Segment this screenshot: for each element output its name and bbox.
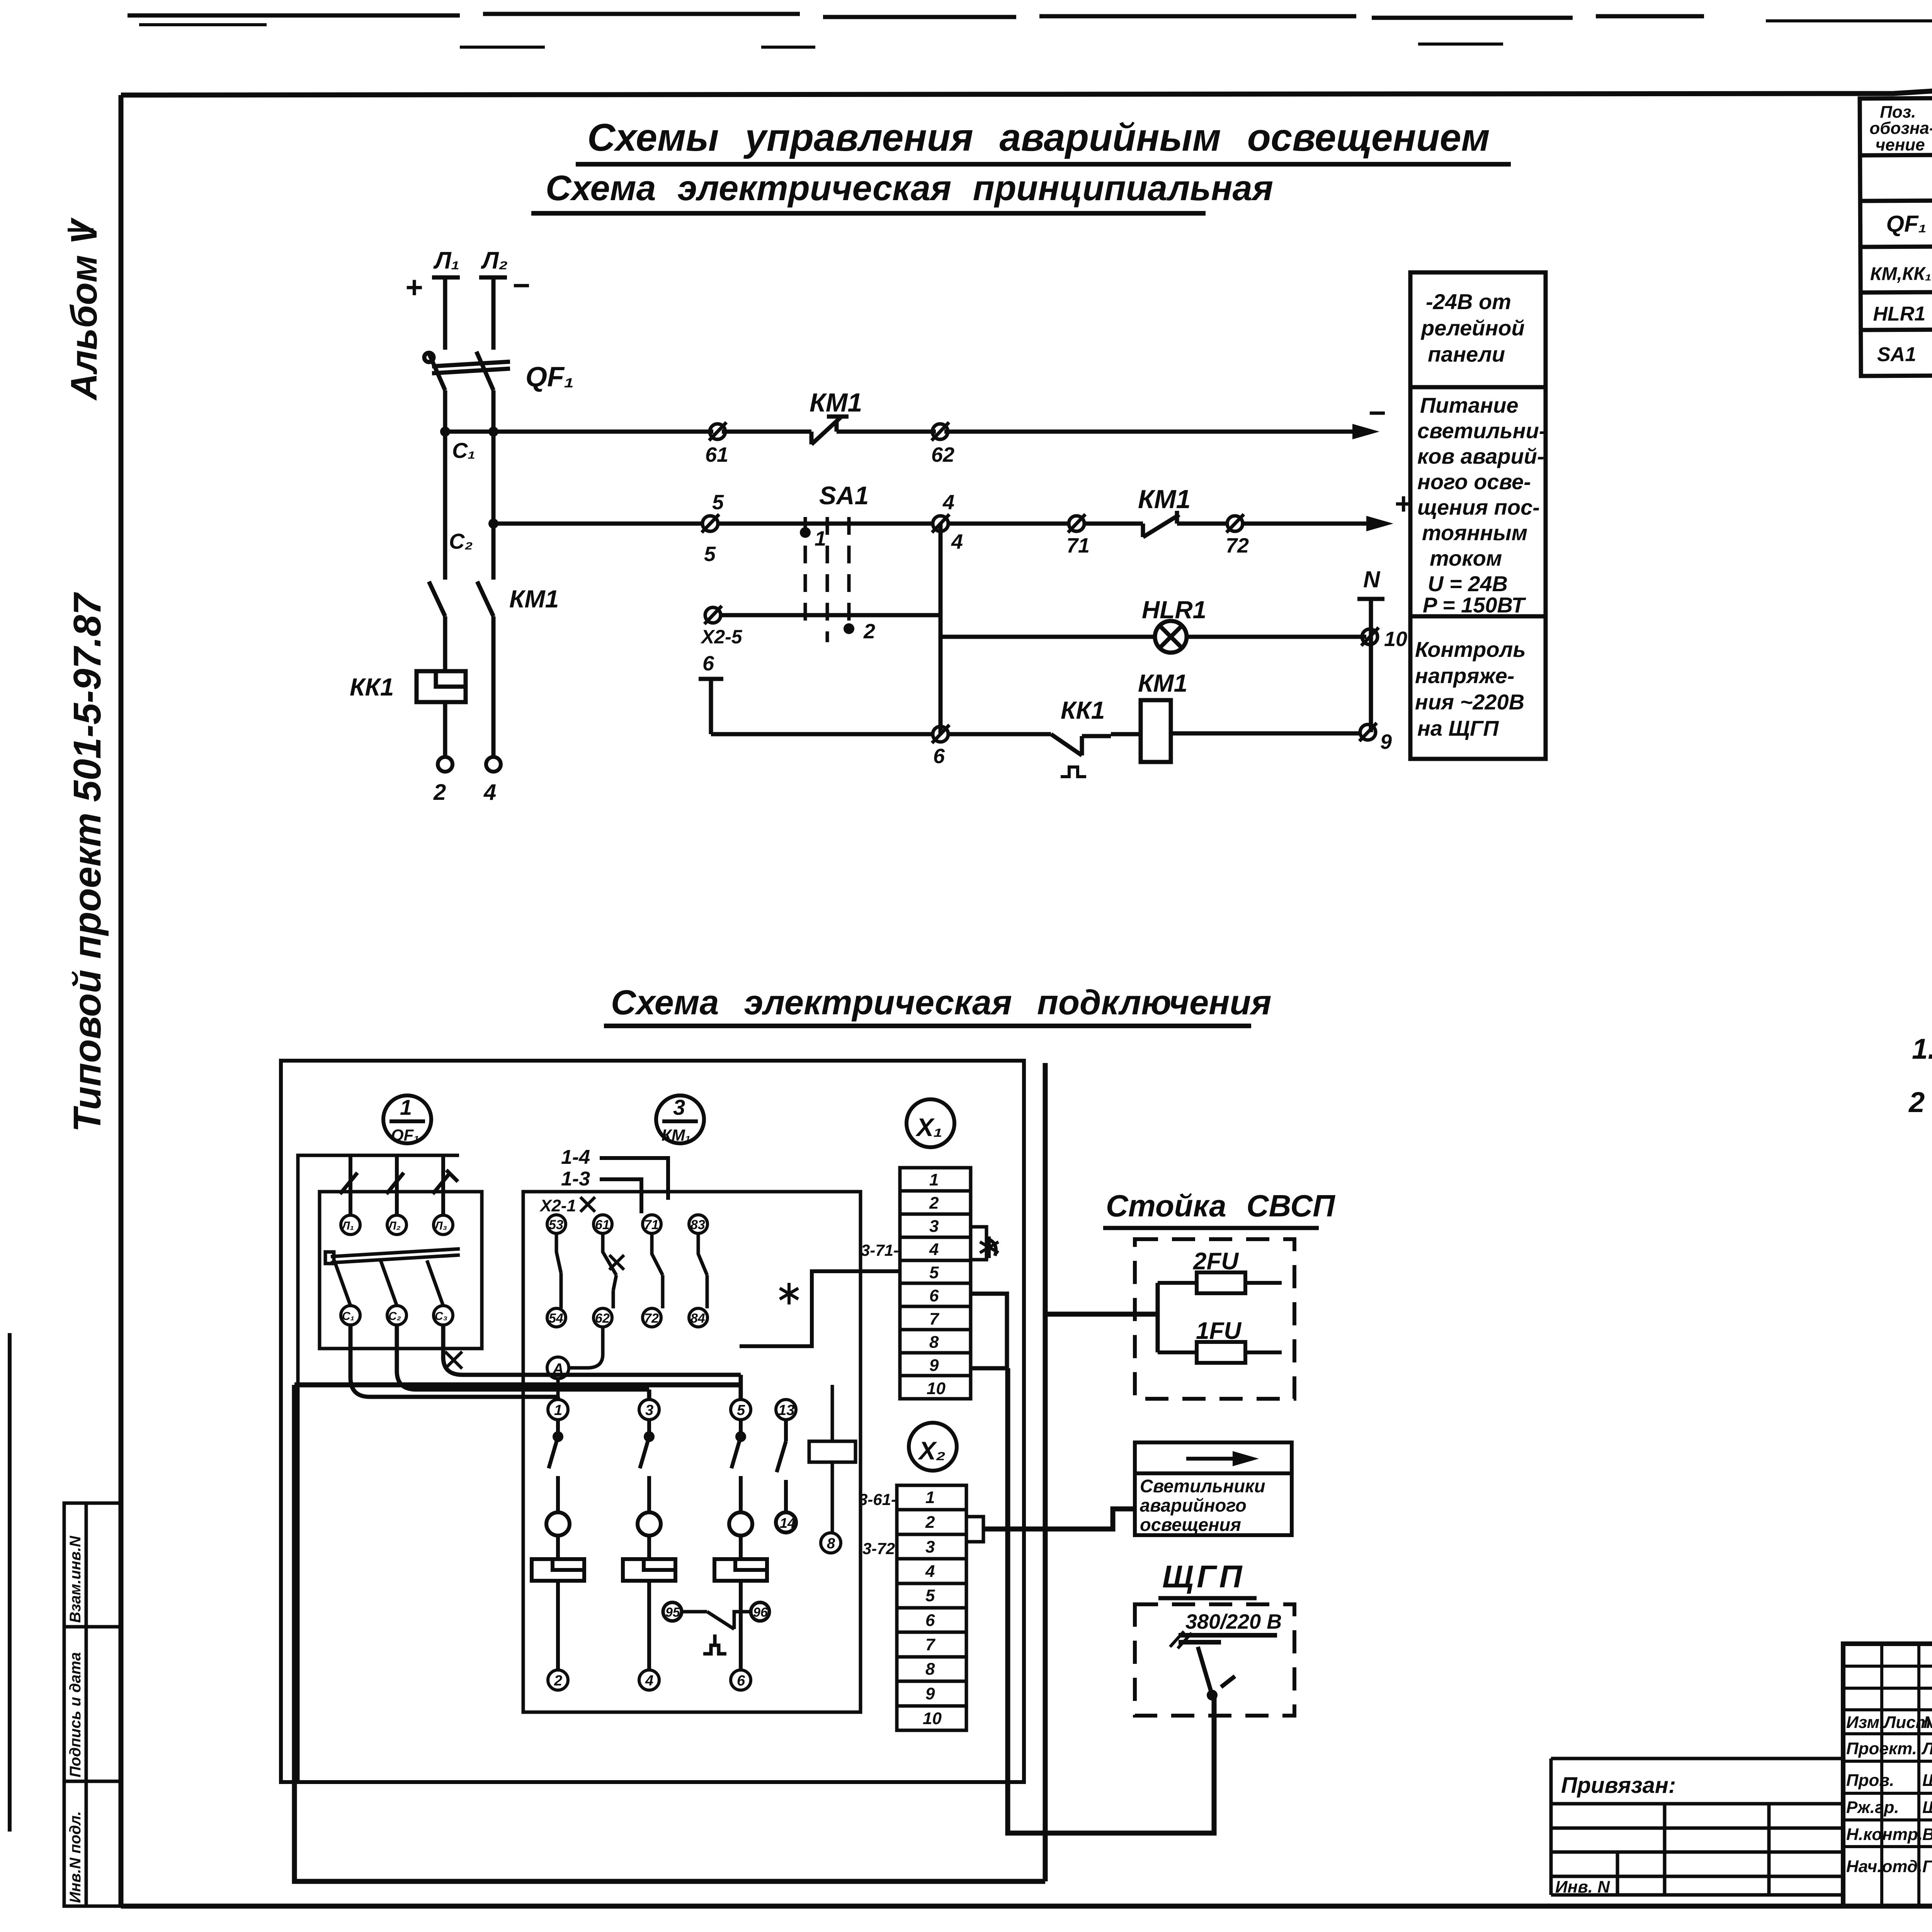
svg-text:С₂: С₂ (449, 529, 473, 553)
svg-text:Схема электрическая принципи: Схема электрическая принципиальная (546, 168, 1273, 208)
svg-text:53: 53 (549, 1218, 563, 1232)
svg-text:4: 4 (942, 491, 954, 514)
svg-text:КМ1: КМ1 (810, 388, 862, 417)
KM1 pole 13-14 (776, 1420, 796, 1532)
svg-text:Подпись и дата: Подпись и дата (67, 1652, 84, 1777)
svg-text:Пров.: Пров. (1846, 1771, 1894, 1790)
device circle 1/QF1 (383, 1095, 431, 1143)
svg-text:Проект.: Проект. (1846, 1739, 1917, 1758)
wire control line (711, 733, 1360, 734)
connector X2 circle (909, 1423, 957, 1471)
contact 71 (1068, 514, 1085, 532)
svg-text:N: N (1363, 566, 1381, 592)
demount mark below QF1 (445, 1352, 462, 1369)
svg-text:9: 9 (1380, 730, 1392, 753)
wire aux box (831, 1385, 834, 1533)
svg-text:Волкова: Волкова (1922, 1825, 1932, 1844)
note 2 mount (1908, 1086, 1932, 1118)
svg-text:Стойка СВСП: Стойка СВСП (1106, 1189, 1335, 1223)
signature grid (1843, 1644, 1932, 1906)
svg-text:1: 1 (925, 1488, 935, 1507)
node C1 (440, 427, 450, 437)
svg-text:QF₁: QF₁ (391, 1126, 419, 1145)
svg-text:Питание: Питание (1420, 393, 1519, 417)
svg-text:7: 7 (925, 1635, 936, 1654)
aux resistor box (809, 1441, 855, 1462)
svg-text:щения пос-: щения пос- (1417, 495, 1540, 519)
svg-text:ния ~220В: ния ~220В (1415, 690, 1524, 714)
svg-text:Л₁: Л₁ (341, 1219, 354, 1232)
svg-text:6: 6 (933, 745, 945, 768)
svg-text:QF₁: QF₁ (526, 362, 574, 393)
wire to lamps box (983, 1509, 1135, 1529)
margin stamp labels (67, 1536, 84, 1903)
svg-text:Н.контр.: Н.контр. (1846, 1825, 1923, 1844)
KM1 main pole 1 (546, 1420, 570, 1558)
svg-text:6: 6 (737, 1673, 745, 1689)
svg-text:КМ₁: КМ₁ (662, 1126, 691, 1144)
svg-text:X2-1: X2-1 (539, 1196, 576, 1215)
KM1 aux blades (556, 1233, 707, 1308)
svg-text:3: 3 (929, 1217, 939, 1236)
wire to terminal 2 (443, 702, 447, 757)
wire plus bus (493, 522, 1379, 526)
mount asterisk X1 (980, 1236, 998, 1258)
svg-text:3-72: 3-72 (862, 1539, 895, 1558)
svg-text:8: 8 (827, 1536, 835, 1552)
terminal block X1 (900, 1168, 971, 1399)
svg-text:КК1: КК1 (350, 673, 394, 701)
svg-text:−: − (1368, 396, 1386, 430)
svg-text:КМ,КК₁: КМ,КК₁ (1870, 264, 1932, 284)
svg-text:чение: чение (1875, 135, 1925, 155)
svg-text:КМ1: КМ1 (1138, 485, 1190, 514)
svg-text:Х₂: Х₂ (917, 1436, 946, 1465)
contact 5 (702, 514, 719, 532)
KM1 main contacts left legs (429, 432, 493, 757)
svg-text:4: 4 (951, 530, 963, 553)
lamps box (1135, 1442, 1292, 1535)
svg-text:5: 5 (704, 543, 716, 566)
contact KK1 thermal NC (1051, 734, 1111, 777)
svg-text:2: 2 (863, 620, 875, 643)
svg-text:А: А (552, 1361, 564, 1378)
jumper X1 6-9 (971, 1294, 1007, 1368)
switch SA1 dashed lines (805, 517, 849, 642)
svg-text:Рж.гр.: Рж.гр. (1846, 1798, 1899, 1817)
svg-text:Нач.отд.: Нач.отд. (1846, 1857, 1922, 1876)
contact 9 (1359, 723, 1377, 741)
contact KM1 NO on plus bus (1143, 511, 1179, 537)
svg-text:+: + (405, 270, 423, 304)
svg-text:U = 24В: U = 24В (1428, 571, 1508, 596)
node 2 on SA1 (844, 623, 854, 634)
svg-text:96: 96 (753, 1605, 768, 1620)
svg-text:на ЩГП: на ЩГП (1417, 716, 1499, 740)
contactor box KM1 (523, 1192, 861, 1712)
wire to ShchGP (1008, 1368, 1214, 1833)
svg-text:SА1: SА1 (819, 481, 869, 510)
svg-text:светильни-: светильни- (1417, 418, 1546, 443)
svg-text:ЩГП: ЩГП (1162, 1559, 1245, 1594)
svg-text:Изм.: Изм. (1846, 1713, 1884, 1732)
panel inner box (298, 1155, 459, 1782)
terminal circle 2 (438, 757, 452, 772)
svg-text:КК1: КК1 (1061, 696, 1105, 724)
svg-text:Л₂: Л₂ (481, 247, 508, 274)
svg-text:током: током (1430, 546, 1502, 570)
title block main (1843, 1644, 1932, 1906)
terminal circle 4 (486, 757, 501, 772)
svg-text:Л₃: Л₃ (434, 1219, 447, 1232)
node C2 (488, 519, 498, 529)
svg-text:Л₂: Л₂ (388, 1219, 401, 1232)
svg-text:9: 9 (925, 1684, 935, 1703)
svg-text:-24В от: -24В от (1426, 289, 1511, 314)
svg-text:8: 8 (929, 1333, 939, 1352)
privyazan table (1551, 1759, 1843, 1895)
svg-text:С₁: С₁ (342, 1310, 354, 1323)
svg-text:Х₁: Х₁ (915, 1113, 942, 1141)
svg-text:1: 1 (554, 1402, 562, 1418)
KM1 aux contacts top (547, 1215, 707, 1233)
svg-text:10: 10 (927, 1379, 946, 1398)
svg-text:Альбом V: Альбом V (63, 217, 105, 401)
svg-text:Схема электрическая подключе: Схема электрическая подключения (611, 983, 1272, 1022)
svg-text:5: 5 (737, 1402, 745, 1418)
KM1 main poles circles (548, 1400, 796, 1420)
breaker box QF1 (320, 1192, 482, 1349)
svg-text:72: 72 (1226, 534, 1249, 557)
SECTION: component table (1860, 95, 1932, 376)
terminal block X2 (897, 1485, 966, 1730)
terminal L1 (432, 247, 460, 350)
wire minus bus (445, 430, 1365, 434)
svg-text:С₂: С₂ (388, 1310, 401, 1323)
terminal N (1357, 599, 1384, 732)
bottom terminal circles 2 4 6 (548, 1670, 751, 1690)
contact 61 (709, 422, 726, 440)
svg-text:1: 1 (929, 1170, 939, 1189)
svg-text:62: 62 (595, 1311, 610, 1326)
svg-text:1: 1 (400, 1095, 412, 1119)
svg-text:Штапельман: Штапельман (1922, 1798, 1932, 1817)
lamp HLR1 (940, 621, 1366, 653)
svg-text:ного осве-: ного осве- (1417, 469, 1531, 494)
svg-text:71: 71 (644, 1218, 659, 1232)
svg-text:Инв.N подл.: Инв.N подл. (67, 1811, 84, 1903)
svg-text:4: 4 (925, 1562, 935, 1581)
svg-text:напряже-: напряже- (1415, 663, 1514, 688)
svg-text:6: 6 (929, 1286, 939, 1305)
fuse stand dashed box (1135, 1239, 1294, 1399)
svg-text:тоянным: тоянным (1422, 520, 1527, 545)
svg-text:3-71-: 3-71- (861, 1241, 899, 1259)
contact 62 (932, 422, 949, 440)
svg-text:Светильники: Светильники (1140, 1476, 1265, 1496)
terminal L2 (479, 247, 508, 350)
album label (63, 217, 105, 401)
svg-text:61: 61 (705, 443, 728, 466)
svg-text:панели: панели (1428, 342, 1505, 366)
wire X2-5 (721, 613, 940, 617)
node A circle (547, 1357, 569, 1379)
svg-text:HLR1: HLR1 (1142, 596, 1206, 624)
svg-text:4: 4 (645, 1673, 653, 1689)
wire A drop (558, 1327, 603, 1400)
heater KK1 (417, 671, 466, 702)
demount mark aux (609, 1255, 624, 1270)
svg-text:62: 62 (931, 443, 954, 466)
contact 72 (1226, 514, 1244, 532)
device circle 3/KM1 (656, 1095, 704, 1143)
svg-text:5: 5 (925, 1586, 935, 1605)
svg-text:С₁: С₁ (452, 438, 475, 463)
svg-text:С₃: С₃ (435, 1310, 447, 1323)
panel outer box (281, 1061, 1024, 1782)
svg-text:3: 3 (925, 1537, 935, 1556)
svg-text:1-4: 1-4 (561, 1146, 590, 1168)
svg-text:Схемы управления аварийным: Схемы управления аварийным освещением (587, 116, 1490, 159)
svg-text:Инв. N: Инв. N (1555, 1878, 1610, 1896)
KM1 aux contacts bottom (547, 1308, 707, 1327)
svg-text:релейной: релейной (1420, 316, 1525, 340)
circuit breaker QF1 (424, 352, 510, 524)
wire from box to X1 (740, 1271, 900, 1346)
svg-text:2: 2 (1908, 1086, 1925, 1118)
wires to bottom terminals (558, 1581, 741, 1670)
svg-text:84: 84 (690, 1311, 705, 1326)
leads into QF1 (340, 1155, 458, 1215)
svg-text:3-61-: 3-61- (859, 1490, 896, 1509)
connector bracket X2 (966, 1517, 983, 1542)
svg-text:61: 61 (595, 1218, 610, 1232)
svg-text:Л₁: Л₁ (433, 247, 459, 274)
svg-text:Взам.инв.N: Взам.инв.N (67, 1536, 84, 1623)
svg-text:1-3: 1-3 (561, 1168, 590, 1190)
svg-text:72: 72 (644, 1311, 659, 1326)
svg-text:ков аварий-: ков аварий- (1417, 444, 1544, 468)
svg-text:Контроль: Контроль (1415, 637, 1526, 662)
svg-text:2: 2 (554, 1673, 562, 1689)
connector bracket X1 (971, 1227, 996, 1260)
circle 8 (821, 1533, 841, 1553)
contact 10 (1361, 628, 1379, 646)
arrow minus (1352, 424, 1379, 439)
note 1 demount (1912, 1033, 1932, 1065)
svg-text:Типовой проект 501-5-97.87: Типовой проект 501-5-97.87 (66, 592, 109, 1132)
svg-text:КМ1: КМ1 (509, 585, 559, 613)
connector X1 circle (906, 1099, 954, 1147)
svg-text:8: 8 (925, 1660, 935, 1679)
svg-text:X2-5: X2-5 (700, 626, 743, 648)
wire feed to fuse stand (294, 1063, 1158, 1881)
svg-text:10: 10 (923, 1709, 942, 1728)
contact 4 (932, 514, 949, 532)
arrow plus (1366, 516, 1393, 531)
svg-text:380/220 В: 380/220 В (1185, 1610, 1282, 1633)
svg-text:1: 1 (815, 527, 826, 550)
wires QF1 outputs (350, 1325, 741, 1400)
svg-text:Привязан:: Привязан: (1561, 1773, 1676, 1798)
svg-text:−: − (512, 268, 530, 302)
svg-text:аварийного: аварийного (1140, 1495, 1247, 1515)
svg-text:6: 6 (925, 1611, 935, 1630)
node 1 on SA1 (800, 527, 811, 538)
wire 1-3 (600, 1179, 641, 1213)
contact KM1 NC on minus bus (811, 417, 849, 444)
svg-text:P = 150ВТ: P = 150ВТ (1423, 593, 1526, 617)
svg-text:5: 5 (929, 1263, 939, 1282)
svg-text:2: 2 (929, 1194, 939, 1213)
svg-text:95: 95 (665, 1605, 680, 1620)
mount asterisk (780, 1283, 798, 1304)
QF1 blades (325, 1249, 460, 1306)
svg-text:10: 10 (1384, 628, 1407, 651)
svg-text:3: 3 (645, 1402, 653, 1418)
svg-text:Nдокум.: Nдокум. (1923, 1713, 1932, 1732)
terminal 6 (699, 679, 723, 734)
KM1 main pole 3 (638, 1420, 661, 1558)
panel ShchGP dashed box (1135, 1604, 1294, 1716)
svg-text:Гаподник: Гаподник (1922, 1857, 1932, 1876)
QF1 pole circles top (341, 1215, 453, 1235)
coil KM1 (1141, 700, 1171, 762)
contact X2-5 (704, 606, 722, 624)
contact 6 (932, 725, 949, 743)
svg-text:2: 2 (433, 780, 446, 805)
svg-text:6: 6 (702, 652, 714, 675)
SECTION: infobox (1410, 272, 1546, 759)
wire 1-4 (600, 1158, 668, 1200)
svg-text:QF₁: QF₁ (1886, 211, 1927, 236)
svg-text:7: 7 (929, 1310, 940, 1328)
svg-text:Штапельман: Штапельман (1922, 1771, 1932, 1790)
switch in ShchGP (1198, 1647, 1235, 1695)
svg-text:13: 13 (778, 1402, 794, 1418)
svg-text:9: 9 (929, 1356, 939, 1375)
svg-text:14: 14 (780, 1515, 795, 1531)
QF1 pole circles bottom (341, 1306, 453, 1325)
svg-text:5: 5 (712, 491, 724, 514)
svg-text:3: 3 (673, 1095, 685, 1119)
svg-text:83: 83 (690, 1218, 705, 1232)
svg-text:1.: 1. (1912, 1033, 1932, 1065)
wire fuse branch (1156, 1283, 1160, 1352)
svg-text:освещения: освещения (1140, 1514, 1241, 1535)
svg-text:54: 54 (549, 1311, 563, 1326)
svg-text:Линкасик: Линкасик (1921, 1739, 1932, 1758)
heater elements (532, 1559, 767, 1581)
svg-text:4: 4 (483, 780, 496, 805)
svg-text:71: 71 (1066, 534, 1090, 557)
svg-text:2: 2 (925, 1513, 935, 1532)
KM1 main pole 5 (729, 1420, 752, 1558)
svg-text:4: 4 (929, 1240, 939, 1259)
margin stamp boxes (64, 1503, 121, 1906)
wire junction vertical (939, 524, 943, 734)
svg-text:HLR1: HLR1 (1873, 303, 1925, 325)
thermal contact 95-96 (663, 1602, 769, 1654)
svg-text:КМ1: КМ1 (1138, 669, 1187, 697)
svg-text:SА1: SА1 (1877, 343, 1916, 366)
